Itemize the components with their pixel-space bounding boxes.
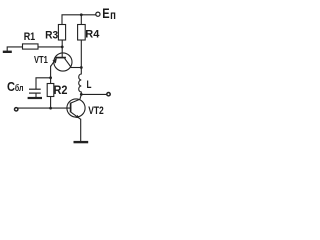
svg-text:VT2: VT2 — [88, 105, 104, 117]
svg-text:R2: R2 — [54, 85, 68, 97]
svg-text:п: п — [110, 10, 116, 22]
svg-text:R1: R1 — [24, 31, 36, 43]
svg-text:R4: R4 — [85, 28, 100, 40]
svg-text:R3: R3 — [45, 29, 58, 41]
svg-text:VT1: VT1 — [34, 54, 48, 66]
svg-text:Е: Е — [102, 5, 109, 21]
svg-text:бл: бл — [15, 83, 24, 93]
svg-text:L: L — [87, 79, 92, 91]
svg-text:С: С — [7, 80, 15, 94]
